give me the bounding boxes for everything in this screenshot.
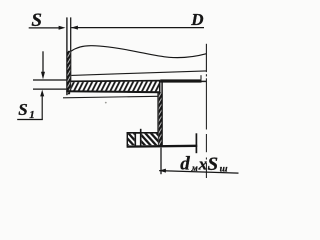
inner thin line under plate: [63, 96, 158, 98]
break (wavy) line: [71, 46, 207, 58]
branch pipe left wall line: [66, 17, 68, 95]
svg-text:1: 1: [29, 109, 35, 121]
arrowhead D left-pointing: [71, 26, 78, 30]
centerline (dash-dot axis) segment 1: [205, 44, 207, 72]
dimension line D: [71, 27, 204, 29]
centerline segment 5: [205, 163, 207, 178]
plate right edge: [159, 80, 161, 93]
inner surface line above plate: [71, 71, 206, 76]
nozzle inner wall: [161, 82, 163, 146]
S1 label underline: [17, 119, 43, 121]
svg-text:D: D: [190, 10, 203, 29]
bottom line of ring and nozzle end: [127, 145, 198, 148]
svg-text:d: d: [180, 153, 190, 174]
nozzle outer wall: [157, 92, 159, 147]
plate top line: [70, 80, 160, 83]
centerline dot: [205, 74, 207, 76]
ring top line: [127, 132, 158, 134]
extension line S1 top: [33, 79, 66, 81]
ring inner vertical line 1: [134, 133, 136, 146]
pipe wall section hatch: [68, 51, 71, 95]
centerline segment 3: [205, 78, 207, 129]
branch pipe right wall line: [70, 17, 72, 92]
dimension line S (leader with underline of S): [29, 27, 60, 29]
ring left edge: [126, 132, 128, 146]
S1 upper leader line: [42, 51, 44, 73]
svg-text:ш: ш: [220, 165, 228, 175]
centerline segment 4: [205, 134, 207, 152]
S1 lower leader stem: [41, 96, 43, 120]
svg-text:x: x: [198, 154, 208, 173]
plate bottom line: [66, 91, 160, 92]
ring hatch left cell: [128, 134, 134, 146]
end-face thin continuation to axis: [202, 80, 207, 82]
small tick above end face: [200, 75, 202, 79]
centerline dot 2: [205, 158, 207, 160]
ring inner vertical line 2 with tick above: [140, 129, 142, 146]
nozzle wall section hatch: [159, 92, 162, 146]
extension line for d dimension: [160, 148, 162, 175]
dimension line d x S (with underline of label): [159, 171, 238, 174]
arrowhead d left-pointing: [159, 169, 166, 173]
svg-text:S: S: [18, 100, 27, 119]
svg-text:м: м: [191, 163, 198, 173]
ring hatch right cell: [142, 134, 158, 146]
arrowhead S1 down-pointing: [41, 72, 45, 80]
svg-text:S: S: [208, 154, 219, 175]
plate hatch: [71, 82, 160, 92]
arrowhead S1 up-pointing: [40, 90, 44, 97]
faint speckle: [105, 102, 107, 104]
nozzle top end-face thick line: [160, 79, 201, 82]
short vertical line at nozzle bore edge: [195, 133, 197, 153]
extension line S1 bottom: [33, 88, 66, 90]
arrowhead S right-pointing: [59, 26, 66, 30]
